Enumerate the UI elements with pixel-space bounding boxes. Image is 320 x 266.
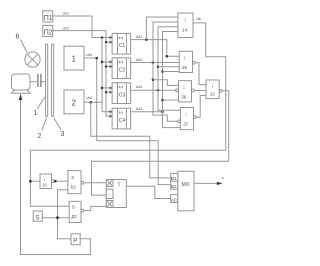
svg-text:в в: в в — [119, 36, 124, 40]
wire C2 tap to 36 input1 — [153, 80, 179, 86]
svg-text:S: S — [71, 175, 74, 180]
wire riser C3 up to D4 input3 — [158, 27, 178, 91]
svg-text:Uв: Uв — [196, 17, 201, 21]
wire C4 tap to 36 input3 — [163, 99, 179, 101]
node A drop — [29, 180, 32, 183]
svg-text:Б2: Б2 — [71, 184, 77, 189]
svg-text:Uа4: Uа4 — [136, 107, 143, 111]
wire P output to motor — [21, 97, 91, 255]
svg-text:↑: ↑ — [108, 192, 110, 197]
wire C1 drop to 25 input1 — [167, 40, 179, 57]
node C3 tap 25 — [157, 66, 160, 69]
node C4 riser — [161, 111, 164, 114]
wire S output to D3 lower input — [42, 217, 69, 219]
svg-text:в в: в в — [119, 60, 124, 64]
disc 1 (slotted plate) — [46, 44, 48, 117]
wire 10R output down to B line — [222, 91, 229, 162]
svg-text:П1: П1 — [44, 15, 53, 22]
motor M body — [12, 74, 31, 90]
svg-text:14: 14 — [182, 28, 188, 33]
gate 25 — [179, 51, 195, 72]
node block2 output — [90, 101, 93, 104]
svg-text:u: u — [222, 175, 224, 180]
node C1 output riser — [145, 38, 148, 41]
leader line for label 3 — [54, 118, 61, 130]
node C2 riser — [152, 61, 155, 64]
gate 10L — [40, 174, 54, 189]
wire D4 output staircase — [193, 23, 226, 150]
wire riser C2 up to D4 input2 — [153, 22, 178, 63]
leader line for label 1 — [38, 97, 45, 109]
svg-text:1: 1 — [34, 110, 38, 117]
svg-text:↓: ↓ — [182, 85, 185, 91]
svg-text:С4: С4 — [119, 118, 126, 124]
node tap C3 — [101, 87, 104, 90]
generator S — [33, 211, 42, 222]
node P1 bus top — [101, 36, 104, 39]
wire 10L output to T2 — [54, 180, 68, 182]
wire 36 output to 10R input2 — [194, 90, 206, 92]
wire 37 output to 10R input3 — [196, 96, 206, 118]
multiplexer MX — [171, 171, 194, 211]
wire tap C2 input2 — [106, 66, 112, 68]
node S junction — [56, 216, 59, 219]
svg-text:↓: ↓ — [43, 176, 46, 182]
disc 2 (slotted plate) — [52, 44, 54, 117]
amplifier P — [71, 234, 80, 245]
svg-text:В2: В2 — [171, 184, 177, 189]
svg-text:↓: ↓ — [183, 56, 186, 62]
node C3 riser — [157, 89, 160, 92]
wire C2zig to 37 input2 crossing — [152, 114, 154, 116]
svg-text:Uп2: Uп2 — [63, 27, 70, 31]
wire riser C1 to D4 input1 — [146, 17, 178, 40]
svg-text:↓: ↓ — [184, 18, 187, 24]
leader line for label 6 — [21, 40, 28, 53]
wire A drop node to 10L input — [30, 180, 40, 182]
wire D3 output to modulator bottom — [84, 206, 107, 210]
svg-text:А0: А0 — [171, 197, 177, 202]
svg-text:Uа2: Uа2 — [136, 58, 143, 62]
svg-text:в в: в в — [119, 85, 124, 89]
wire riser C4 up to D4 input4 — [163, 32, 178, 112]
svg-text:36: 36 — [181, 94, 187, 99]
svg-text:↓: ↓ — [184, 112, 187, 118]
wire T2 output to modulator top — [84, 182, 107, 184]
svg-text:Uа3: Uа3 — [136, 85, 143, 89]
motor drive arrowhead — [19, 94, 23, 100]
svg-text:6: 6 — [16, 34, 20, 41]
box P1 (setter) — [43, 11, 53, 22]
lamp HL (circle with X) — [25, 52, 40, 67]
wire riser C4 down to 37 input3 — [163, 112, 181, 128]
motor base — [12, 90, 31, 93]
wire B long left to T middle input — [92, 161, 229, 195]
wire block2 branch down to Va — [91, 102, 171, 178]
svg-text:37: 37 — [183, 121, 189, 126]
wire C1 output — [131, 39, 167, 41]
trigger D3 — [69, 201, 84, 222]
svg-text:25: 25 — [182, 65, 188, 70]
gate D4 (14) — [178, 13, 193, 38]
svg-text:1: 1 — [72, 55, 77, 64]
svg-text:↓: ↓ — [211, 84, 214, 90]
node C2 tap 36 — [152, 78, 155, 81]
svg-text:Р: Р — [73, 238, 77, 244]
wire P1 output — [53, 16, 112, 38]
node tap C2 input2 — [105, 65, 107, 67]
wire riser C3 down to 37 input1 — [158, 90, 180, 110]
svg-text:Uв1: Uв1 — [86, 53, 93, 57]
node block1 output — [95, 57, 98, 60]
block C1 — [110, 33, 131, 54]
wire T2 lower input from S chain — [58, 190, 71, 239]
node C4 tap 25 — [161, 70, 164, 73]
svg-text:10: 10 — [210, 92, 216, 97]
node tap C1 input2 — [105, 41, 107, 43]
block C4 — [110, 108, 131, 129]
svg-text:S: S — [35, 215, 39, 222]
wire C3 output to 36 bubble — [131, 89, 177, 91]
svg-text:Т: Т — [118, 183, 121, 189]
wire C4 output — [131, 111, 163, 113]
modulator T — [106, 180, 126, 208]
wire feedback A long left — [30, 150, 225, 206]
box P2 (setter) — [43, 25, 53, 36]
svg-text:2: 2 — [72, 99, 77, 108]
leader line for label 2 — [42, 118, 47, 131]
wire block1 output — [84, 58, 97, 141]
svg-text:МХ: МХ — [182, 182, 190, 188]
wire block2 output — [84, 101, 102, 103]
gate 37 — [178, 108, 197, 130]
svg-text:С1: С1 — [119, 43, 126, 49]
svg-text:С2: С2 — [119, 67, 126, 73]
svg-text:С3: С3 — [119, 92, 126, 98]
svg-text:В1: В1 — [171, 176, 177, 181]
wire tap C1 input2 — [106, 41, 112, 43]
block 1 (former) — [64, 46, 84, 70]
svg-text:Uа1: Uа1 — [136, 35, 143, 39]
node tap C3 input2 — [105, 91, 107, 93]
node C4 tap 36 — [161, 99, 164, 102]
block C2 — [110, 58, 131, 79]
MX output arrowhead — [217, 182, 223, 185]
wire tap C4 input2 — [106, 115, 112, 117]
motor shaft — [30, 81, 37, 83]
svg-text:Uв2: Uв2 — [86, 96, 93, 100]
wire C3 tap to 25 input3 — [158, 66, 179, 68]
wire tap C2 input1 — [102, 61, 112, 63]
svg-text:Uп1: Uп1 — [63, 12, 70, 16]
wire C4 tap to 25 input4 — [163, 71, 180, 73]
svg-text:3: 3 — [61, 131, 65, 138]
coupling bars — [38, 74, 41, 87]
node C1 drop — [166, 55, 169, 58]
node tap C2 — [101, 61, 104, 64]
wire 25 output to 10R input1 — [195, 63, 206, 85]
shaft to disc — [42, 81, 46, 83]
wire block1 line L1 to Vb — [97, 141, 171, 185]
block C3 — [110, 83, 131, 104]
svg-text:Д3: Д3 — [71, 214, 77, 219]
svg-text:П2: П2 — [44, 30, 53, 37]
node 10L output — [54, 180, 57, 183]
svg-text:в в: в в — [119, 111, 124, 115]
wire tap C3 input2 — [106, 91, 112, 93]
wire tap C4 input1 — [102, 111, 112, 113]
wire C2 output to 25 input2 — [131, 62, 180, 64]
gate 36 — [176, 81, 195, 102]
svg-text:2: 2 — [38, 133, 42, 140]
wire tap C3 input1 — [102, 87, 112, 89]
svg-text:10: 10 — [42, 183, 47, 188]
trigger T2 (B2) — [68, 171, 84, 194]
svg-text:S: S — [72, 205, 75, 210]
wire MX output — [194, 182, 221, 184]
wire T output to A0 — [126, 186, 170, 198]
wire P2 output — [53, 31, 106, 117]
wire riser C2 down — [153, 63, 178, 122]
gate 10R — [206, 80, 222, 99]
wire P1 bus vertical — [101, 38, 103, 112]
block 2 (former) — [64, 90, 84, 114]
